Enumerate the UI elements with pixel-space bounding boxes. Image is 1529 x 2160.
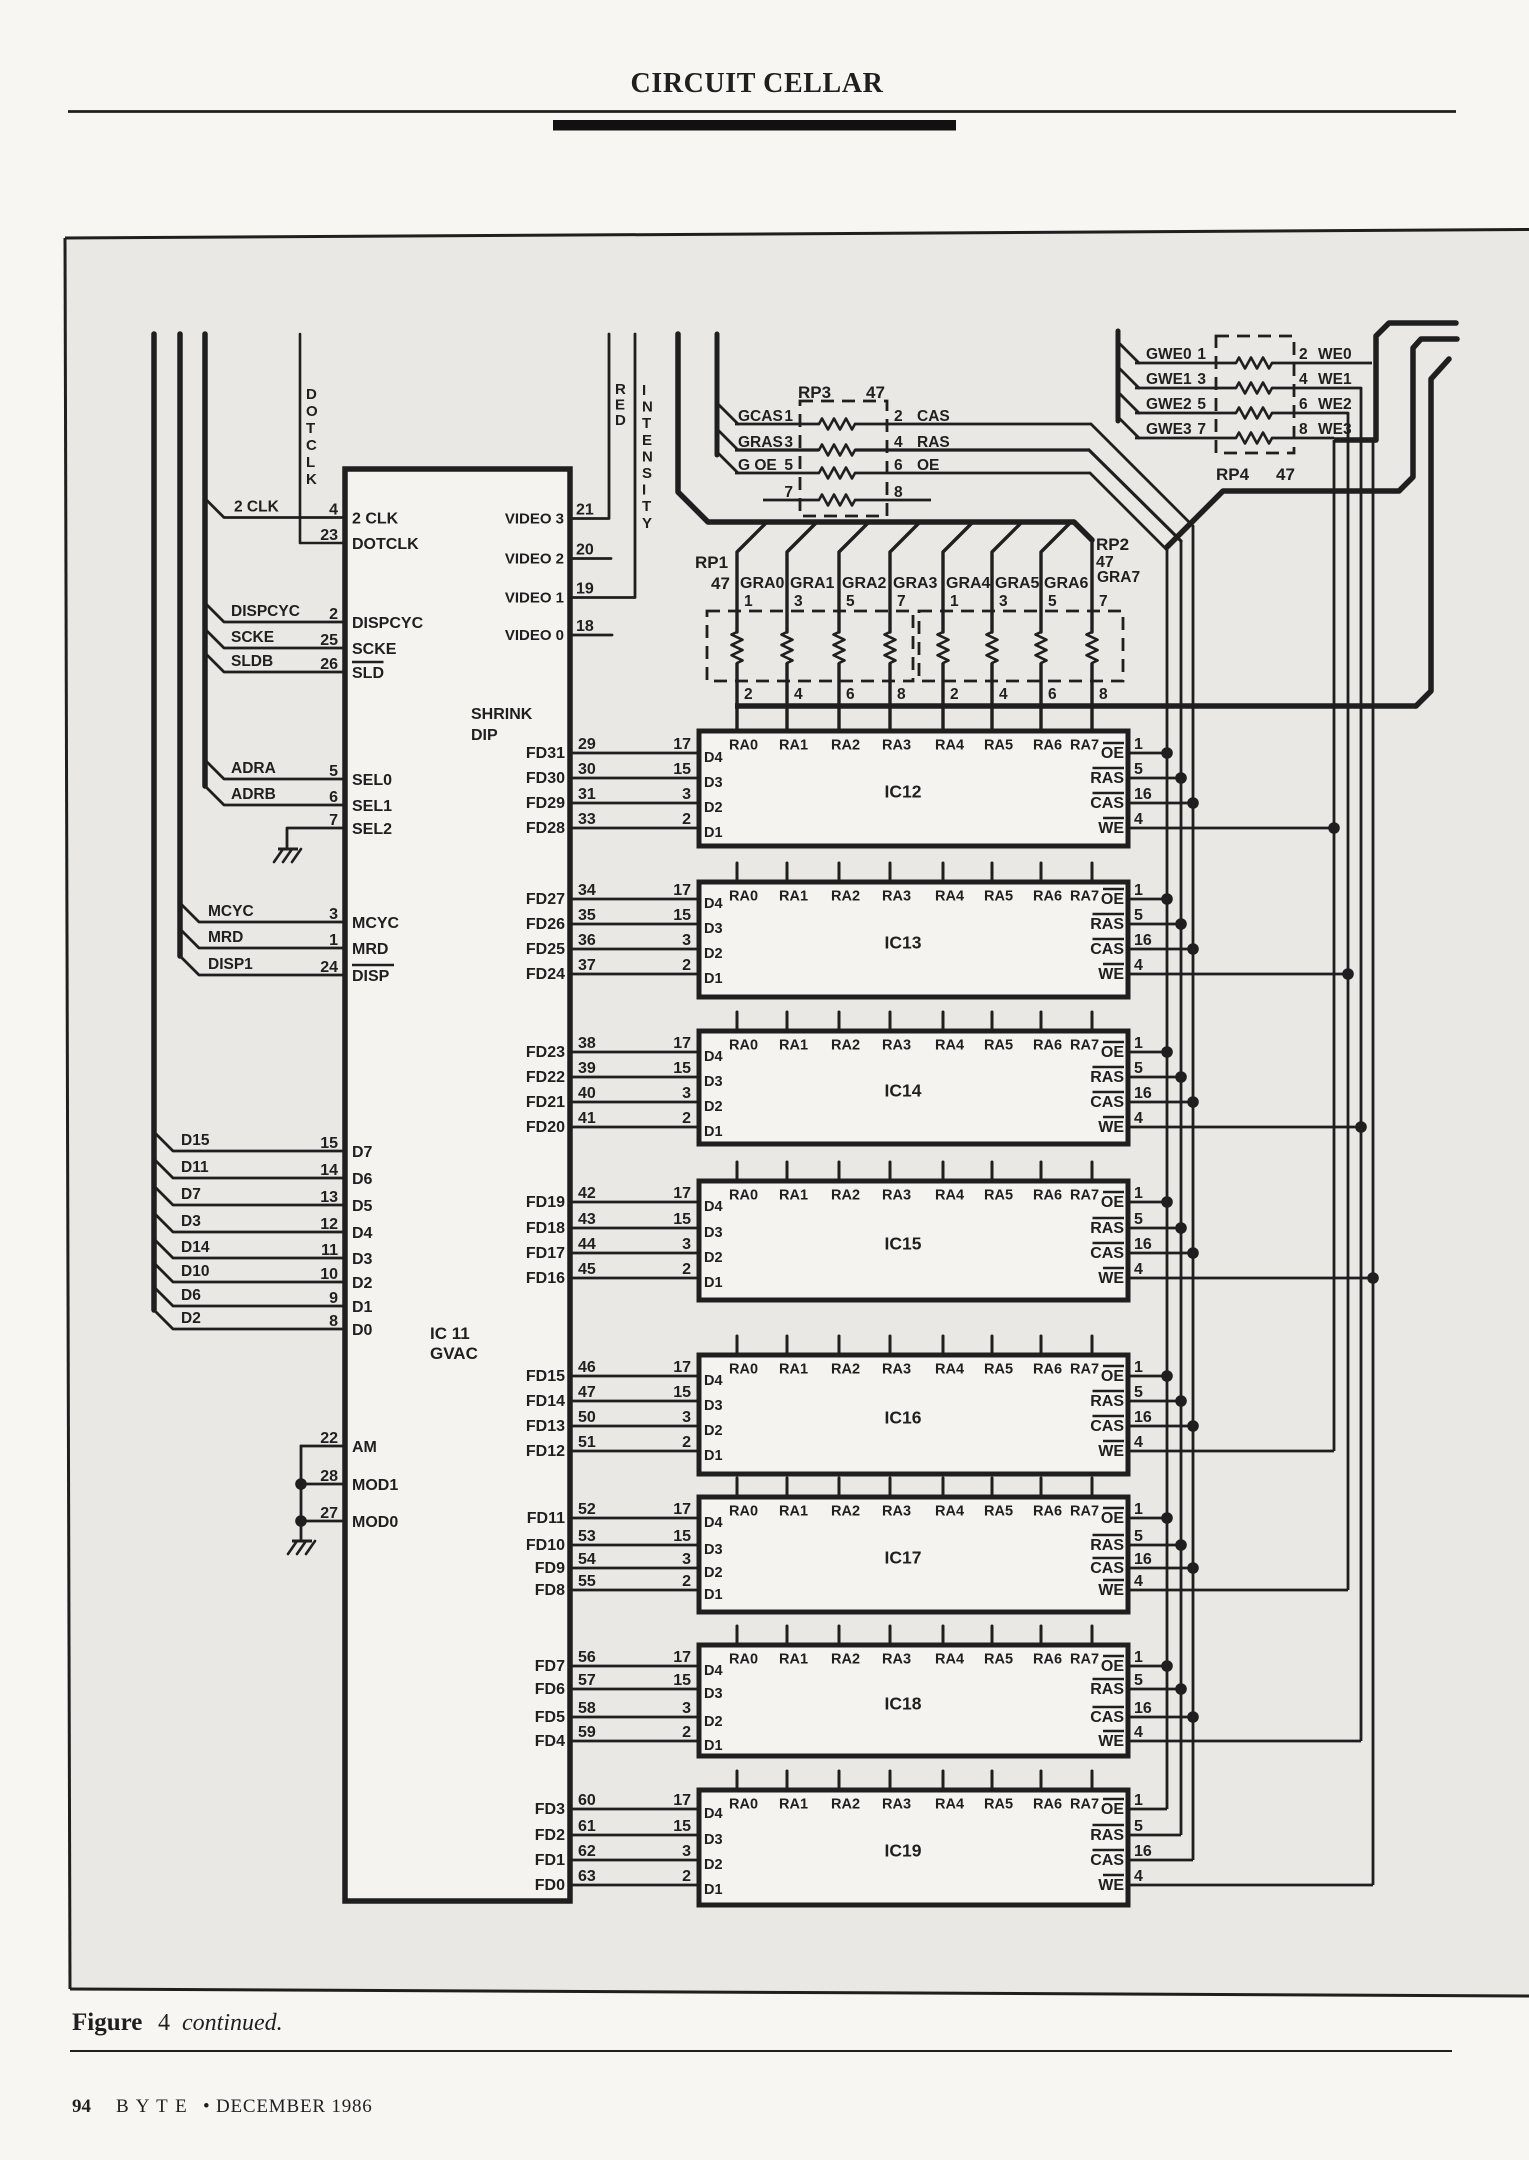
svg-text:OE: OE <box>1101 1368 1124 1385</box>
svg-text:SCKE: SCKE <box>231 629 274 646</box>
svg-text:4: 4 <box>329 502 338 519</box>
svg-text:RA5: RA5 <box>984 1797 1013 1813</box>
svg-text:8: 8 <box>1299 421 1308 438</box>
svg-text:21: 21 <box>576 502 594 519</box>
svg-text:L: L <box>306 454 315 471</box>
svg-text:D11: D11 <box>181 1159 209 1176</box>
svg-text:RA6: RA6 <box>1033 1504 1062 1520</box>
svg-text:WE2: WE2 <box>1318 396 1352 413</box>
svg-text:SLD: SLD <box>352 665 384 682</box>
svg-text:2: 2 <box>894 408 903 425</box>
svg-text:GCAS: GCAS <box>738 408 783 425</box>
svg-text:DISPCYC: DISPCYC <box>352 615 424 632</box>
svg-text:MOD1: MOD1 <box>352 1477 398 1494</box>
svg-text:CAS: CAS <box>1090 1094 1124 1111</box>
svg-text:15: 15 <box>673 1211 691 1228</box>
svg-text:62: 62 <box>578 1843 596 1860</box>
svg-text:CAS: CAS <box>1090 1418 1124 1435</box>
svg-text:D2: D2 <box>704 1099 723 1115</box>
svg-text:2: 2 <box>682 1261 691 1278</box>
svg-text:D1: D1 <box>704 971 723 987</box>
svg-text:RA7: RA7 <box>1070 1362 1099 1378</box>
svg-text:RA4: RA4 <box>935 1188 964 1204</box>
svg-text:D4: D4 <box>704 1199 723 1215</box>
svg-text:41: 41 <box>578 1110 596 1127</box>
svg-text:GRA5: GRA5 <box>995 575 1040 592</box>
svg-text:VIDEO 1: VIDEO 1 <box>505 590 564 607</box>
svg-text:CAS: CAS <box>1090 795 1124 812</box>
svg-text:Y: Y <box>642 515 652 532</box>
svg-text:FD12: FD12 <box>526 1443 565 1460</box>
svg-text:D1: D1 <box>704 1882 723 1898</box>
svg-text:FD22: FD22 <box>526 1069 565 1086</box>
svg-text:R: R <box>615 381 626 398</box>
svg-text:58: 58 <box>578 1700 596 1717</box>
svg-text:RA3: RA3 <box>882 1504 911 1520</box>
svg-text:RA2: RA2 <box>831 1504 860 1520</box>
svg-text:FD27: FD27 <box>526 891 565 908</box>
svg-text:D4: D4 <box>704 1515 723 1531</box>
svg-text:6: 6 <box>1299 396 1308 413</box>
svg-text:RA6: RA6 <box>1033 889 1062 905</box>
svg-text:6: 6 <box>1048 686 1057 703</box>
svg-text:RA1: RA1 <box>779 1652 808 1668</box>
svg-text:FD21: FD21 <box>526 1094 565 1111</box>
svg-text:D3: D3 <box>704 921 723 937</box>
svg-text:3: 3 <box>682 1551 691 1568</box>
svg-text:D2: D2 <box>704 800 723 816</box>
svg-text:3: 3 <box>682 1843 691 1860</box>
svg-text:FD19: FD19 <box>526 1194 565 1211</box>
svg-text:3: 3 <box>682 1700 691 1717</box>
svg-text:17: 17 <box>673 1501 691 1518</box>
svg-text:FD18: FD18 <box>526 1220 565 1237</box>
svg-text:1: 1 <box>1134 1792 1143 1809</box>
svg-text:RA5: RA5 <box>984 738 1013 754</box>
svg-text:D1: D1 <box>352 1299 373 1316</box>
svg-text:15: 15 <box>673 1528 691 1545</box>
svg-text:RA6: RA6 <box>1033 1797 1062 1813</box>
svg-text:RA2: RA2 <box>831 1038 860 1054</box>
svg-text:RA1: RA1 <box>779 889 808 905</box>
svg-text:continued.: continued. <box>182 2010 283 2036</box>
svg-text:RA2: RA2 <box>831 738 860 754</box>
svg-text:D4: D4 <box>704 1373 723 1389</box>
svg-text:D3: D3 <box>704 1542 723 1558</box>
svg-text:WE1: WE1 <box>1318 371 1352 388</box>
svg-text:MOD0: MOD0 <box>352 1514 398 1531</box>
svg-text:4: 4 <box>999 686 1008 703</box>
svg-text:D1: D1 <box>704 1124 723 1140</box>
svg-text:SCKE: SCKE <box>352 641 397 658</box>
svg-text:WE: WE <box>1098 1270 1124 1287</box>
svg-text:16: 16 <box>1134 1409 1152 1426</box>
svg-text:50: 50 <box>578 1409 596 1426</box>
svg-text:47: 47 <box>711 574 730 593</box>
svg-text:ADRB: ADRB <box>231 786 276 803</box>
svg-text:2: 2 <box>682 1434 691 1451</box>
svg-text:RAS: RAS <box>917 434 950 451</box>
svg-text:FD10: FD10 <box>526 1537 565 1554</box>
svg-text:17: 17 <box>673 1359 691 1376</box>
svg-text:2: 2 <box>744 686 753 703</box>
svg-text:IC13: IC13 <box>885 933 922 953</box>
svg-text:RA0: RA0 <box>729 889 758 905</box>
svg-text:40: 40 <box>578 1085 596 1102</box>
svg-text:3: 3 <box>682 786 691 803</box>
svg-text:N: N <box>642 399 653 416</box>
svg-text:RA4: RA4 <box>935 1362 964 1378</box>
svg-text:RAS: RAS <box>1090 770 1124 787</box>
svg-text:FD13: FD13 <box>526 1418 565 1435</box>
svg-text:7: 7 <box>1099 593 1108 610</box>
svg-text:CAS: CAS <box>1090 1852 1124 1869</box>
svg-text:RA6: RA6 <box>1033 1652 1062 1668</box>
svg-text:RAS: RAS <box>1090 1393 1124 1410</box>
svg-text:1: 1 <box>744 593 753 610</box>
svg-text:17: 17 <box>673 736 691 753</box>
svg-text:4: 4 <box>1134 1868 1143 1885</box>
svg-text:RA0: RA0 <box>729 1188 758 1204</box>
svg-text:DISP1: DISP1 <box>208 956 253 973</box>
svg-text:CIRCUIT CELLAR: CIRCUIT CELLAR <box>631 68 884 99</box>
svg-text:D4: D4 <box>704 1663 723 1679</box>
svg-text:52: 52 <box>578 1501 596 1518</box>
svg-text:GWE1: GWE1 <box>1146 371 1192 388</box>
svg-text:2 CLK: 2 CLK <box>234 499 280 516</box>
svg-text:N: N <box>642 448 653 465</box>
svg-text:FD23: FD23 <box>526 1044 565 1061</box>
svg-text:MCYC: MCYC <box>352 915 400 932</box>
svg-text:D3: D3 <box>704 1686 723 1702</box>
svg-text:FD5: FD5 <box>535 1709 565 1726</box>
svg-text:OE: OE <box>1101 745 1124 762</box>
svg-text:11: 11 <box>321 1242 338 1259</box>
svg-text:RA7: RA7 <box>1070 1188 1099 1204</box>
svg-text:D10: D10 <box>181 1263 209 1280</box>
svg-text:GRA3: GRA3 <box>893 575 938 592</box>
svg-text:OE: OE <box>1101 1801 1124 1818</box>
svg-text:IC15: IC15 <box>885 1234 922 1254</box>
svg-text:4: 4 <box>1134 1573 1143 1590</box>
svg-text:31: 31 <box>578 786 596 803</box>
svg-text:10: 10 <box>320 1266 338 1283</box>
svg-text:D7: D7 <box>352 1144 373 1161</box>
svg-text:43: 43 <box>578 1211 596 1228</box>
svg-text:D3: D3 <box>704 1832 723 1848</box>
svg-text:OE: OE <box>1101 891 1124 908</box>
svg-text:RA5: RA5 <box>984 1504 1013 1520</box>
svg-text:RA7: RA7 <box>1070 1038 1099 1054</box>
svg-text:WE: WE <box>1098 1119 1124 1136</box>
svg-text:16: 16 <box>1134 1236 1152 1253</box>
svg-text:36: 36 <box>578 932 596 949</box>
svg-text:RA7: RA7 <box>1070 738 1099 754</box>
svg-text:2: 2 <box>950 686 959 703</box>
svg-text:RA1: RA1 <box>779 1038 808 1054</box>
svg-text:RA6: RA6 <box>1033 1362 1062 1378</box>
svg-text:OE: OE <box>1101 1194 1124 1211</box>
svg-text:5: 5 <box>1197 396 1206 413</box>
svg-text:44: 44 <box>578 1236 596 1253</box>
svg-text:D1: D1 <box>704 1448 723 1464</box>
svg-text:2: 2 <box>682 1724 691 1741</box>
svg-text:4: 4 <box>1134 1261 1143 1278</box>
svg-text:D3: D3 <box>704 1225 723 1241</box>
svg-text:34: 34 <box>578 882 596 899</box>
svg-text:RA2: RA2 <box>831 1362 860 1378</box>
svg-text:OE: OE <box>917 457 939 474</box>
svg-text:2: 2 <box>682 1573 691 1590</box>
svg-text:5: 5 <box>329 763 338 780</box>
svg-text:D1: D1 <box>704 825 723 841</box>
svg-text:47: 47 <box>578 1384 596 1401</box>
svg-text:D4: D4 <box>704 750 723 766</box>
svg-text:5: 5 <box>1134 1211 1143 1228</box>
svg-text:RA1: RA1 <box>779 1504 808 1520</box>
svg-text:D0: D0 <box>352 1322 373 1339</box>
svg-text:FD26: FD26 <box>526 916 565 933</box>
svg-text:5: 5 <box>1134 761 1143 778</box>
svg-text:T: T <box>642 415 651 432</box>
svg-text:RA4: RA4 <box>935 889 964 905</box>
svg-text:FD9: FD9 <box>535 1560 565 1577</box>
svg-text:17: 17 <box>673 1035 691 1052</box>
svg-text:56: 56 <box>578 1649 596 1666</box>
svg-text:4: 4 <box>1134 1434 1143 1451</box>
svg-text:RA4: RA4 <box>935 1797 964 1813</box>
svg-text:WE0: WE0 <box>1318 346 1352 363</box>
svg-text:RA3: RA3 <box>882 1362 911 1378</box>
svg-text:1: 1 <box>1134 736 1143 753</box>
svg-text:RAS: RAS <box>1090 1537 1124 1554</box>
svg-text:CAS: CAS <box>1090 941 1124 958</box>
svg-text:D2: D2 <box>704 946 723 962</box>
svg-text:1: 1 <box>1134 882 1143 899</box>
svg-text:RA2: RA2 <box>831 889 860 905</box>
svg-text:5: 5 <box>1134 907 1143 924</box>
svg-text:MRD: MRD <box>352 941 388 958</box>
svg-text:2: 2 <box>682 957 691 974</box>
svg-text:RA6: RA6 <box>1033 738 1062 754</box>
svg-text:IC12: IC12 <box>885 782 922 802</box>
svg-text:38: 38 <box>578 1035 596 1052</box>
svg-text:17: 17 <box>673 1649 691 1666</box>
svg-text:OE: OE <box>1101 1044 1124 1061</box>
svg-text:57: 57 <box>578 1672 596 1689</box>
svg-text:2 CLK: 2 CLK <box>352 511 399 528</box>
svg-text:4: 4 <box>158 2010 170 2036</box>
svg-text:FD6: FD6 <box>535 1681 565 1698</box>
svg-text:RP2: RP2 <box>1096 535 1129 554</box>
svg-text:15: 15 <box>673 1672 691 1689</box>
svg-text:7: 7 <box>329 812 338 829</box>
svg-text:3: 3 <box>794 593 803 610</box>
svg-text:D2: D2 <box>704 1714 723 1730</box>
svg-text:16: 16 <box>1134 1085 1152 1102</box>
svg-text:63: 63 <box>578 1868 596 1885</box>
svg-text:D15: D15 <box>181 1132 210 1149</box>
svg-text:2: 2 <box>682 811 691 828</box>
svg-text:WE: WE <box>1098 966 1124 983</box>
svg-text:17: 17 <box>673 1185 691 1202</box>
svg-text:4: 4 <box>1134 811 1143 828</box>
svg-text:I: I <box>642 382 646 399</box>
svg-text:ADRA: ADRA <box>231 760 276 777</box>
svg-text:FD8: FD8 <box>535 1582 565 1599</box>
svg-text:GRA6: GRA6 <box>1044 575 1089 592</box>
svg-text:55: 55 <box>578 1573 596 1590</box>
svg-text:D1: D1 <box>704 1587 723 1603</box>
svg-text:T: T <box>642 498 651 515</box>
svg-text:RA7: RA7 <box>1070 889 1099 905</box>
svg-text:3: 3 <box>329 906 338 923</box>
svg-text:RA2: RA2 <box>831 1797 860 1813</box>
svg-text:3: 3 <box>784 434 793 451</box>
svg-text:FD28: FD28 <box>526 820 565 837</box>
svg-text:FD15: FD15 <box>526 1368 565 1385</box>
svg-text:3: 3 <box>682 1085 691 1102</box>
svg-text:GWE2: GWE2 <box>1146 396 1192 413</box>
svg-text:FD7: FD7 <box>535 1658 565 1675</box>
svg-text:D2: D2 <box>704 1565 723 1581</box>
svg-text:D5: D5 <box>352 1198 373 1215</box>
svg-text:5: 5 <box>846 593 855 610</box>
svg-text:D: D <box>615 412 626 429</box>
svg-text:27: 27 <box>320 1505 338 1522</box>
svg-text:D2: D2 <box>704 1250 723 1266</box>
svg-text:RA3: RA3 <box>882 1038 911 1054</box>
svg-text:1: 1 <box>784 408 793 425</box>
svg-text:2: 2 <box>682 1868 691 1885</box>
svg-text:5: 5 <box>1134 1528 1143 1545</box>
svg-text:3: 3 <box>682 1409 691 1426</box>
svg-text:FD30: FD30 <box>526 770 565 787</box>
svg-text:RAS: RAS <box>1090 916 1124 933</box>
svg-text:RA0: RA0 <box>729 1797 758 1813</box>
svg-text:RA4: RA4 <box>935 1504 964 1520</box>
svg-text:RAS: RAS <box>1090 1220 1124 1237</box>
svg-text:15: 15 <box>673 761 691 778</box>
svg-text:RAS: RAS <box>1090 1069 1124 1086</box>
svg-text:GRA0: GRA0 <box>740 575 785 592</box>
svg-text:42: 42 <box>578 1185 596 1202</box>
svg-text:SEL1: SEL1 <box>352 798 392 815</box>
svg-text:1: 1 <box>1134 1501 1143 1518</box>
svg-text:94: 94 <box>72 2096 92 2117</box>
svg-text:FD17: FD17 <box>526 1245 565 1262</box>
svg-text:8: 8 <box>894 484 903 501</box>
svg-text:VIDEO 3: VIDEO 3 <box>505 511 564 528</box>
svg-text:4: 4 <box>1134 957 1143 974</box>
svg-text:RAS: RAS <box>1090 1827 1124 1844</box>
svg-text:3: 3 <box>682 932 691 949</box>
svg-text:WE: WE <box>1098 1582 1124 1599</box>
svg-text:RA3: RA3 <box>882 889 911 905</box>
svg-text:29: 29 <box>578 736 596 753</box>
svg-text:1: 1 <box>1197 346 1206 363</box>
svg-text:3: 3 <box>1197 371 1206 388</box>
svg-text:K: K <box>306 471 317 488</box>
svg-text:RA5: RA5 <box>984 1652 1013 1668</box>
svg-text:FD11: FD11 <box>527 1510 565 1527</box>
svg-text:D7: D7 <box>181 1186 201 1203</box>
svg-text:FD24: FD24 <box>526 966 565 983</box>
svg-text:1: 1 <box>329 932 338 949</box>
svg-text:20: 20 <box>576 542 594 559</box>
svg-text:FD1: FD1 <box>535 1852 565 1869</box>
svg-text:G OE: G OE <box>738 457 777 474</box>
svg-text:GRA1: GRA1 <box>790 575 835 592</box>
svg-text:RA2: RA2 <box>831 1188 860 1204</box>
svg-text:D2: D2 <box>704 1423 723 1439</box>
svg-text:SEL2: SEL2 <box>352 821 392 838</box>
svg-text:VIDEO 2: VIDEO 2 <box>505 551 564 568</box>
svg-text:RA5: RA5 <box>984 889 1013 905</box>
svg-text:RP4: RP4 <box>1216 465 1250 484</box>
svg-text:IC14: IC14 <box>885 1081 922 1101</box>
svg-text:5: 5 <box>1134 1384 1143 1401</box>
svg-text:RA7: RA7 <box>1070 1652 1099 1668</box>
svg-text:D2: D2 <box>352 1275 373 1292</box>
svg-text:22: 22 <box>320 1430 338 1447</box>
svg-text:8: 8 <box>329 1313 338 1330</box>
svg-text:I: I <box>642 482 646 499</box>
svg-text:D4: D4 <box>704 896 723 912</box>
svg-text:D4: D4 <box>704 1806 723 1822</box>
svg-text:33: 33 <box>578 811 596 828</box>
svg-text:RA4: RA4 <box>935 1038 964 1054</box>
svg-text:15: 15 <box>673 1384 691 1401</box>
svg-text:3: 3 <box>999 593 1008 610</box>
svg-text:6: 6 <box>894 457 903 474</box>
svg-text:FD25: FD25 <box>526 941 565 958</box>
svg-text:WE: WE <box>1098 1443 1124 1460</box>
svg-text:9: 9 <box>329 1290 338 1307</box>
svg-text:AM: AM <box>352 1439 377 1456</box>
svg-text:RA3: RA3 <box>882 1188 911 1204</box>
svg-text:7: 7 <box>897 593 906 610</box>
svg-text:RA0: RA0 <box>729 1504 758 1520</box>
svg-text:D1: D1 <box>704 1738 723 1754</box>
svg-text:54: 54 <box>578 1551 596 1568</box>
svg-text:GWE3: GWE3 <box>1146 421 1192 438</box>
svg-text:SLDB: SLDB <box>231 653 273 670</box>
svg-text:16: 16 <box>1134 786 1152 803</box>
svg-text:FD31: FD31 <box>526 745 565 762</box>
svg-text:CAS: CAS <box>1090 1245 1124 1262</box>
svg-text:16: 16 <box>1134 932 1152 949</box>
svg-text:RA3: RA3 <box>882 1652 911 1668</box>
svg-text:5: 5 <box>784 457 793 474</box>
svg-text:46: 46 <box>578 1359 596 1376</box>
svg-text:MRD: MRD <box>208 929 243 946</box>
svg-text:8: 8 <box>897 686 906 703</box>
svg-text:4: 4 <box>1134 1110 1143 1127</box>
svg-text:D2: D2 <box>704 1857 723 1873</box>
svg-text:17: 17 <box>673 1792 691 1809</box>
svg-text:RA4: RA4 <box>935 738 964 754</box>
svg-text:1: 1 <box>1134 1185 1143 1202</box>
svg-text:E: E <box>615 397 625 414</box>
svg-text:4: 4 <box>894 434 903 451</box>
svg-text:1: 1 <box>950 593 959 610</box>
svg-text:RA0: RA0 <box>729 1038 758 1054</box>
svg-text:18: 18 <box>576 618 594 635</box>
svg-text:B Y T E: B Y T E <box>116 2096 188 2117</box>
svg-text:15: 15 <box>673 1060 691 1077</box>
svg-text:2: 2 <box>329 606 338 623</box>
